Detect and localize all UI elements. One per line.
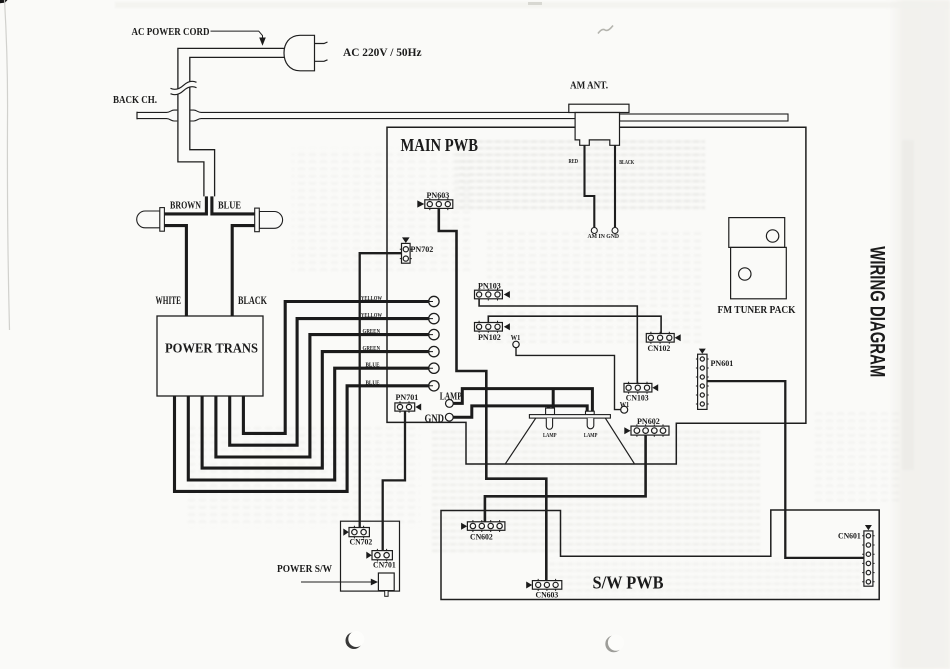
svg-text:CN702: CN702 xyxy=(350,538,373,547)
svg-text:AC POWER CORD: AC POWER CORD xyxy=(132,26,210,38)
svg-text:FM TUNER PACK: FM TUNER PACK xyxy=(718,304,796,316)
svg-text:MAIN PWB: MAIN PWB xyxy=(401,135,479,155)
svg-text:GREEN: GREEN xyxy=(363,328,381,335)
svg-text:CN601: CN601 xyxy=(838,532,861,541)
svg-text:BLUE: BLUE xyxy=(366,362,380,369)
svg-text:BLACK: BLACK xyxy=(619,160,634,166)
svg-text:PN102: PN102 xyxy=(478,333,501,342)
svg-text:CN602: CN602 xyxy=(470,533,493,542)
svg-text:YELLOW: YELLOW xyxy=(361,312,382,319)
svg-text:LAMP: LAMP xyxy=(440,391,462,403)
svg-text:GND: GND xyxy=(425,413,445,425)
svg-text:BACK CH.: BACK CH. xyxy=(113,94,157,106)
svg-text:AM ANT.: AM ANT. xyxy=(570,81,608,92)
svg-text:WHITE: WHITE xyxy=(156,295,182,307)
svg-text:LAMP: LAMP xyxy=(543,433,557,439)
svg-text:GREEN: GREEN xyxy=(363,345,381,352)
svg-text:BROWN: BROWN xyxy=(170,200,201,212)
svg-text:WIRING DIAGRAM: WIRING DIAGRAM xyxy=(866,246,889,377)
svg-text:RED: RED xyxy=(569,159,579,165)
svg-text:POWER S/W: POWER S/W xyxy=(277,564,332,575)
svg-text:PN701: PN701 xyxy=(396,393,419,402)
svg-text:W1: W1 xyxy=(620,401,630,409)
svg-text:PN603: PN603 xyxy=(427,191,450,200)
svg-text:YELLOW: YELLOW xyxy=(361,295,382,302)
svg-text:PN702: PN702 xyxy=(411,245,434,254)
svg-text:CN603: CN603 xyxy=(536,590,559,599)
svg-text:BLUE: BLUE xyxy=(218,200,241,212)
svg-text:W1: W1 xyxy=(511,334,521,342)
svg-text:S/W PWB: S/W PWB xyxy=(593,573,664,593)
svg-text:POWER TRANS: POWER TRANS xyxy=(165,341,258,356)
svg-text:CN102: CN102 xyxy=(648,344,671,353)
svg-text:AM IN GND: AM IN GND xyxy=(588,233,620,240)
svg-text:BLUE: BLUE xyxy=(366,379,380,386)
svg-text:PN103: PN103 xyxy=(478,281,501,290)
svg-text:PN601: PN601 xyxy=(711,359,734,368)
svg-text:CN103: CN103 xyxy=(626,394,649,403)
svg-text:CN701: CN701 xyxy=(373,561,396,570)
svg-text:AC 220V / 50Hz: AC 220V / 50Hz xyxy=(343,47,422,59)
svg-text:BLACK: BLACK xyxy=(238,295,267,307)
svg-text:LAMP: LAMP xyxy=(584,433,598,439)
svg-text:PN602: PN602 xyxy=(637,417,660,426)
